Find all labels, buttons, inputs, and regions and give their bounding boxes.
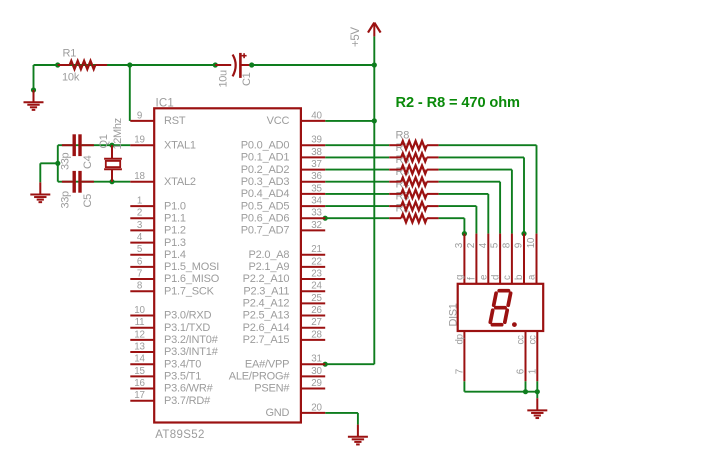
display DIS1 body xyxy=(458,284,544,331)
svg-text:P3.7/RD#: P3.7/RD# xyxy=(164,395,211,407)
pin 30 ALE/PROG# stub xyxy=(301,375,325,377)
wire segment b vertical xyxy=(523,157,525,233)
svg-text:+5V: +5V xyxy=(350,27,362,47)
display pin 8 segment c stub xyxy=(511,234,513,284)
pin 34 P0.5_AD5 stub xyxy=(301,205,325,207)
svg-text:7: 7 xyxy=(454,369,465,374)
svg-text:2: 2 xyxy=(137,208,142,219)
svg-text:P2.2_A10: P2.2_A10 xyxy=(243,273,290,285)
svg-text:34: 34 xyxy=(311,196,322,207)
wire below pin 7 xyxy=(463,381,465,391)
pin 8 P1.7_SCK stub xyxy=(130,290,154,292)
svg-text:P1.1: P1.1 xyxy=(164,212,186,224)
pin 22 P2.1_A9 stub xyxy=(301,266,325,268)
pin 40 VCC stub xyxy=(301,120,325,122)
display pin 1 cc stub xyxy=(536,331,538,381)
pin 16 P3.6/WR# stub xyxy=(130,388,154,390)
svg-text:P0.4_AD4: P0.4_AD4 xyxy=(241,188,290,200)
svg-text:b: b xyxy=(514,274,525,280)
resistor R3 (470 ohm) xyxy=(389,202,438,210)
svg-text:PSEN#: PSEN# xyxy=(254,383,290,395)
wire segment d vertical xyxy=(499,182,501,234)
display pin 6 cc stub xyxy=(525,331,527,381)
junction cc pin 6 xyxy=(523,389,528,394)
svg-text:3: 3 xyxy=(454,242,465,248)
svg-text:P1.7_SCK: P1.7_SCK xyxy=(164,285,215,297)
display pin 3 segment g stub xyxy=(463,234,465,284)
wire to display ground xyxy=(536,392,538,399)
svg-text:c: c xyxy=(502,275,513,280)
wire P0.0 to resistor R8 xyxy=(325,144,389,146)
resistor R1 xyxy=(58,61,107,69)
svg-text:C4: C4 xyxy=(82,155,94,169)
svg-text:28: 28 xyxy=(311,329,322,340)
pin 18 XTAL2 stub xyxy=(130,181,154,183)
junction cc pin 1 xyxy=(535,389,540,394)
svg-text:12Mhz: 12Mhz xyxy=(112,118,124,149)
wire XTAL1 row xyxy=(58,144,131,146)
pin 15 P3.5/T1 stub xyxy=(130,375,154,377)
wire P0.3 to resistor R5 xyxy=(325,181,389,183)
pin 36 P0.3_AD3 stub xyxy=(301,181,325,183)
wire segment g vertical xyxy=(463,218,465,233)
svg-text:13: 13 xyxy=(134,341,145,352)
svg-text:25: 25 xyxy=(311,293,322,304)
pin 7 P1.6_MISO stub xyxy=(130,278,154,280)
svg-text:14: 14 xyxy=(134,354,145,365)
junction EA#/VPP pin 31 xyxy=(323,362,328,367)
pin 13 P3.3/INT1# stub xyxy=(130,351,154,353)
pin 37 P0.2_AD2 stub xyxy=(301,169,325,171)
junction node RST xyxy=(127,62,132,67)
svg-text:20: 20 xyxy=(311,402,322,413)
pin 3 P1.2 stub xyxy=(130,229,154,231)
svg-text:11: 11 xyxy=(135,317,145,328)
svg-text:P3.4/T0: P3.4/T0 xyxy=(164,358,201,370)
svg-text:30: 30 xyxy=(311,366,322,377)
svg-text:10k: 10k xyxy=(62,72,80,84)
pin 23 P2.2_A10 stub xyxy=(301,278,325,280)
svg-text:GND: GND xyxy=(265,407,289,419)
svg-text:37: 37 xyxy=(311,159,322,170)
wire to VCC pin 40 xyxy=(325,120,374,122)
svg-text:P3.5/T1: P3.5/T1 xyxy=(164,371,201,383)
svg-text:P2.4_A12: P2.4_A12 xyxy=(243,298,290,310)
junction segment b top xyxy=(521,231,526,236)
junction crystal bottom xyxy=(109,179,114,184)
pin 26 P2.5_A13 stub xyxy=(301,315,325,317)
svg-text:9: 9 xyxy=(514,242,525,248)
pin 5 P1.4 stub xyxy=(130,254,154,256)
pin 24 P2.3_A11 stub xyxy=(301,290,325,292)
display pin 5 segment d stub xyxy=(499,234,501,284)
junction C1 right xyxy=(249,62,254,67)
svg-text:10: 10 xyxy=(134,305,145,316)
svg-text:16: 16 xyxy=(134,378,145,389)
display pin 4 segment e stub xyxy=(487,234,489,284)
svg-text:VCC: VCC xyxy=(267,115,290,127)
wire VCC net: top horizontal right segment (C1 to +5V) xyxy=(252,64,375,66)
svg-text:g: g xyxy=(455,275,466,280)
svg-text:33p: 33p xyxy=(60,152,72,170)
svg-text:22: 22 xyxy=(311,256,322,267)
display pin 10 segment a stub xyxy=(536,234,538,284)
junction at ground left xyxy=(31,87,36,92)
svg-text:6: 6 xyxy=(137,256,143,267)
svg-text:P2.1_A9: P2.1_A9 xyxy=(248,261,289,273)
svg-text:9: 9 xyxy=(137,110,142,121)
svg-text:P1.3: P1.3 xyxy=(164,237,186,249)
wire segment a vertical xyxy=(536,145,538,233)
wire drop to ground at left xyxy=(33,65,35,90)
wire R4 to segment e column xyxy=(439,193,489,195)
pin 1 P1.0 stub xyxy=(130,205,154,207)
pin 29 PSEN# stub xyxy=(301,388,325,390)
wire R8 to segment a column xyxy=(439,144,537,146)
display pin 2 segment f stub xyxy=(475,234,477,284)
svg-text:C1: C1 xyxy=(241,72,253,86)
ground GND3 xyxy=(348,425,368,445)
wire RST vertical xyxy=(129,65,131,121)
svg-text:cc: cc xyxy=(527,335,538,345)
pin 21 P2.0_A8 stub xyxy=(301,254,325,256)
svg-text:P2.7_A15: P2.7_A15 xyxy=(243,334,290,346)
svg-text:15: 15 xyxy=(134,366,145,377)
svg-text:24: 24 xyxy=(311,281,322,292)
svg-text:dp: dp xyxy=(454,333,465,344)
svg-text:P2.3_A11: P2.3_A11 xyxy=(243,285,289,297)
pin 17 P3.7/RD# stub xyxy=(130,400,154,402)
wire display bottom horizontal xyxy=(464,391,537,393)
svg-text:AT89S52: AT89S52 xyxy=(155,429,205,441)
pin 32 P0.7_AD7 stub xyxy=(301,229,325,231)
junction +5V column top wire xyxy=(372,62,377,67)
svg-text:35: 35 xyxy=(311,183,322,194)
pin 14 P3.4/T0 stub xyxy=(130,363,154,365)
svg-text:12: 12 xyxy=(134,329,145,340)
svg-text:P3.1/TXD: P3.1/TXD xyxy=(164,322,210,334)
wire +5V vertical main xyxy=(373,36,375,364)
wire segment f vertical xyxy=(475,206,477,234)
svg-text:32: 32 xyxy=(311,220,322,231)
pin 27 P2.6_A14 stub xyxy=(301,327,325,329)
wire R5 to segment d column xyxy=(439,181,501,183)
resistor R2 (470 ohm) xyxy=(389,214,438,222)
svg-text:d: d xyxy=(490,275,501,280)
svg-text:29: 29 xyxy=(311,378,322,389)
wire GND pin 20 vertical xyxy=(357,413,359,425)
wire P0.4 to resistor R4 xyxy=(325,193,389,195)
svg-text:36: 36 xyxy=(311,171,322,182)
svg-text:DIS1: DIS1 xyxy=(448,303,460,326)
display digit 8 segments xyxy=(490,291,510,325)
svg-text:33p: 33p xyxy=(60,191,72,209)
svg-text:P1.6_MISO: P1.6_MISO xyxy=(164,273,220,285)
ground GND4 xyxy=(527,398,547,418)
resistor R4 (470 ohm) xyxy=(389,190,438,198)
wire R3 to segment f column xyxy=(439,205,477,207)
wire R7 to segment b column xyxy=(439,156,524,158)
pin 12 P3.2/INT0# stub xyxy=(130,339,154,341)
svg-text:6: 6 xyxy=(516,368,527,374)
svg-text:C5: C5 xyxy=(82,194,94,208)
svg-text:R2 - R8 = 470 ohm: R2 - R8 = 470 ohm xyxy=(396,95,521,111)
junction segment g top xyxy=(462,231,467,236)
pin 2 P1.1 stub xyxy=(130,217,154,219)
wire GND pin 20 horizontal xyxy=(325,412,358,414)
capacitor C5 (33p) xyxy=(62,171,94,193)
svg-text:e: e xyxy=(479,274,490,280)
svg-text:19: 19 xyxy=(134,135,145,146)
pin 38 P0.1_AD1 stub xyxy=(301,156,325,158)
junction node R1 left xyxy=(55,62,60,67)
pin 11 P3.1/TXD stub xyxy=(130,327,154,329)
svg-text:P2.5_A13: P2.5_A13 xyxy=(243,310,290,322)
pin 6 P1.5_MOSI stub xyxy=(130,266,154,268)
wire R2 to segment g column xyxy=(439,217,465,219)
wire P0.2 to resistor R6 xyxy=(325,169,389,171)
junction crystal top xyxy=(109,143,114,148)
svg-text:P3.2/INT0#: P3.2/INT0# xyxy=(164,334,219,346)
supply +5V arrow symbol xyxy=(368,23,381,37)
junction crystal gnd branch xyxy=(55,161,60,166)
svg-text:P0.7_AD7: P0.7_AD7 xyxy=(241,225,290,237)
wire below pin 1 xyxy=(536,381,538,391)
svg-text:P0.2_AD2: P0.2_AD2 xyxy=(241,164,290,176)
svg-text:XTAL1: XTAL1 xyxy=(164,139,196,151)
svg-text:IC1: IC1 xyxy=(156,98,175,110)
junction P0.6 pin 33 xyxy=(323,216,328,221)
svg-text:cc: cc xyxy=(516,335,527,345)
svg-text:P3.3/INT1#: P3.3/INT1# xyxy=(164,346,219,358)
resistor R5 (470 ohm) xyxy=(389,178,438,186)
svg-text:P1.2: P1.2 xyxy=(164,225,186,237)
svg-text:5: 5 xyxy=(490,242,501,248)
resistor R7 (470 ohm) xyxy=(389,153,438,161)
wire XTAL2 row xyxy=(58,181,131,183)
svg-text:3: 3 xyxy=(137,220,143,231)
svg-text:ALE/PROG#: ALE/PROG# xyxy=(229,371,291,383)
svg-text:31: 31 xyxy=(311,354,322,365)
ground GND1 xyxy=(24,90,44,110)
svg-text:1: 1 xyxy=(137,196,142,207)
svg-text:38: 38 xyxy=(311,147,322,158)
svg-text:4: 4 xyxy=(478,242,489,248)
capacitor C4 (33p) xyxy=(62,134,94,156)
pin 9 RST stub xyxy=(130,120,154,122)
wire P0.1 to resistor R7 xyxy=(325,156,389,158)
svg-text:P0.5_AD5: P0.5_AD5 xyxy=(241,200,290,212)
wire gnd branch horizontal xyxy=(40,162,58,164)
svg-text:4: 4 xyxy=(137,232,143,243)
svg-text:5: 5 xyxy=(137,244,143,255)
svg-text:21: 21 xyxy=(311,244,322,255)
resistor R8 (470 ohm) xyxy=(389,141,438,149)
pin 10 P3.0/RXD stub xyxy=(130,315,154,317)
svg-text:P3.0/RXD: P3.0/RXD xyxy=(164,310,212,322)
svg-text:RST: RST xyxy=(164,115,186,127)
wire C4/C5 left vertical xyxy=(57,145,59,182)
svg-text:P0.6_AD6: P0.6_AD6 xyxy=(241,212,290,224)
svg-text:8: 8 xyxy=(502,242,513,248)
svg-text:33: 33 xyxy=(311,208,322,219)
wire below pin 6 xyxy=(525,381,527,391)
svg-text:P1.5_MOSI: P1.5_MOSI xyxy=(164,261,219,273)
svg-text:XTAL2: XTAL2 xyxy=(164,176,196,188)
junction VCC pin40 xyxy=(372,118,377,123)
wire VCC net: top horizontal left segment xyxy=(34,64,216,66)
svg-text:2: 2 xyxy=(466,242,477,248)
svg-text:8: 8 xyxy=(137,281,143,292)
IC IC1 AT89S52 microcontroller body xyxy=(154,108,301,422)
wire P0.5 to resistor R3 xyxy=(325,205,389,207)
ground GND2 xyxy=(30,182,50,202)
display pin 9 segment b stub xyxy=(523,234,525,284)
svg-text:P1.4: P1.4 xyxy=(164,249,186,261)
svg-text:P2.6_A14: P2.6_A14 xyxy=(243,322,290,334)
resistor R6 (470 ohm) xyxy=(389,166,438,174)
svg-text:P0.0_AD0: P0.0_AD0 xyxy=(241,139,290,151)
crystal Q1 (12Mhz) xyxy=(104,145,122,182)
display decimal point xyxy=(512,322,517,327)
svg-text:26: 26 xyxy=(311,305,322,316)
wire gnd branch vertical xyxy=(39,163,41,182)
pin 4 P1.3 stub xyxy=(130,242,154,244)
svg-text:39: 39 xyxy=(311,135,322,146)
pin 25 P2.4_A12 stub xyxy=(301,302,325,304)
wire P0.6 to resistor R2 xyxy=(325,217,389,219)
svg-text:Q1: Q1 xyxy=(98,134,110,148)
svg-text:1: 1 xyxy=(527,369,538,374)
svg-text:P3.6/WR#: P3.6/WR# xyxy=(164,383,214,395)
svg-text:R1: R1 xyxy=(63,48,77,60)
pin 28 P2.7_A15 stub xyxy=(301,339,325,341)
svg-text:P0.1_AD1: P0.1_AD1 xyxy=(241,152,290,164)
svg-text:7: 7 xyxy=(137,268,142,279)
pin 35 P0.4_AD4 stub xyxy=(301,193,325,195)
display pin 7 dp stub xyxy=(463,331,465,381)
svg-text:27: 27 xyxy=(311,317,322,328)
pin 31 EA#/VPP stub xyxy=(301,363,325,365)
svg-text:18: 18 xyxy=(134,171,145,182)
wire segment e vertical xyxy=(487,194,489,234)
svg-text:EA#/VPP: EA#/VPP xyxy=(245,358,289,370)
pin 19 XTAL1 stub xyxy=(130,144,154,146)
svg-text:P0.3_AD3: P0.3_AD3 xyxy=(241,176,290,188)
junction C1 left xyxy=(213,62,218,67)
svg-text:10: 10 xyxy=(526,237,537,248)
svg-text:P1.0: P1.0 xyxy=(164,200,186,212)
capacitor C1 (polarized 10u) xyxy=(215,53,251,78)
wire +5V to EA#/VPP xyxy=(325,363,374,365)
pin 33 P0.6_AD6 stub xyxy=(301,217,325,219)
wire R6 to segment c column xyxy=(439,169,512,171)
svg-text:10u: 10u xyxy=(217,70,229,88)
svg-text:a: a xyxy=(527,274,538,280)
svg-text:17: 17 xyxy=(134,390,145,401)
pin 20 GND stub xyxy=(301,412,325,414)
svg-text:P2.0_A8: P2.0_A8 xyxy=(248,249,289,261)
svg-text:23: 23 xyxy=(311,268,322,279)
wire segment c vertical xyxy=(511,170,513,234)
svg-text:40: 40 xyxy=(311,110,322,121)
pin 39 P0.0_AD0 stub xyxy=(301,144,325,146)
